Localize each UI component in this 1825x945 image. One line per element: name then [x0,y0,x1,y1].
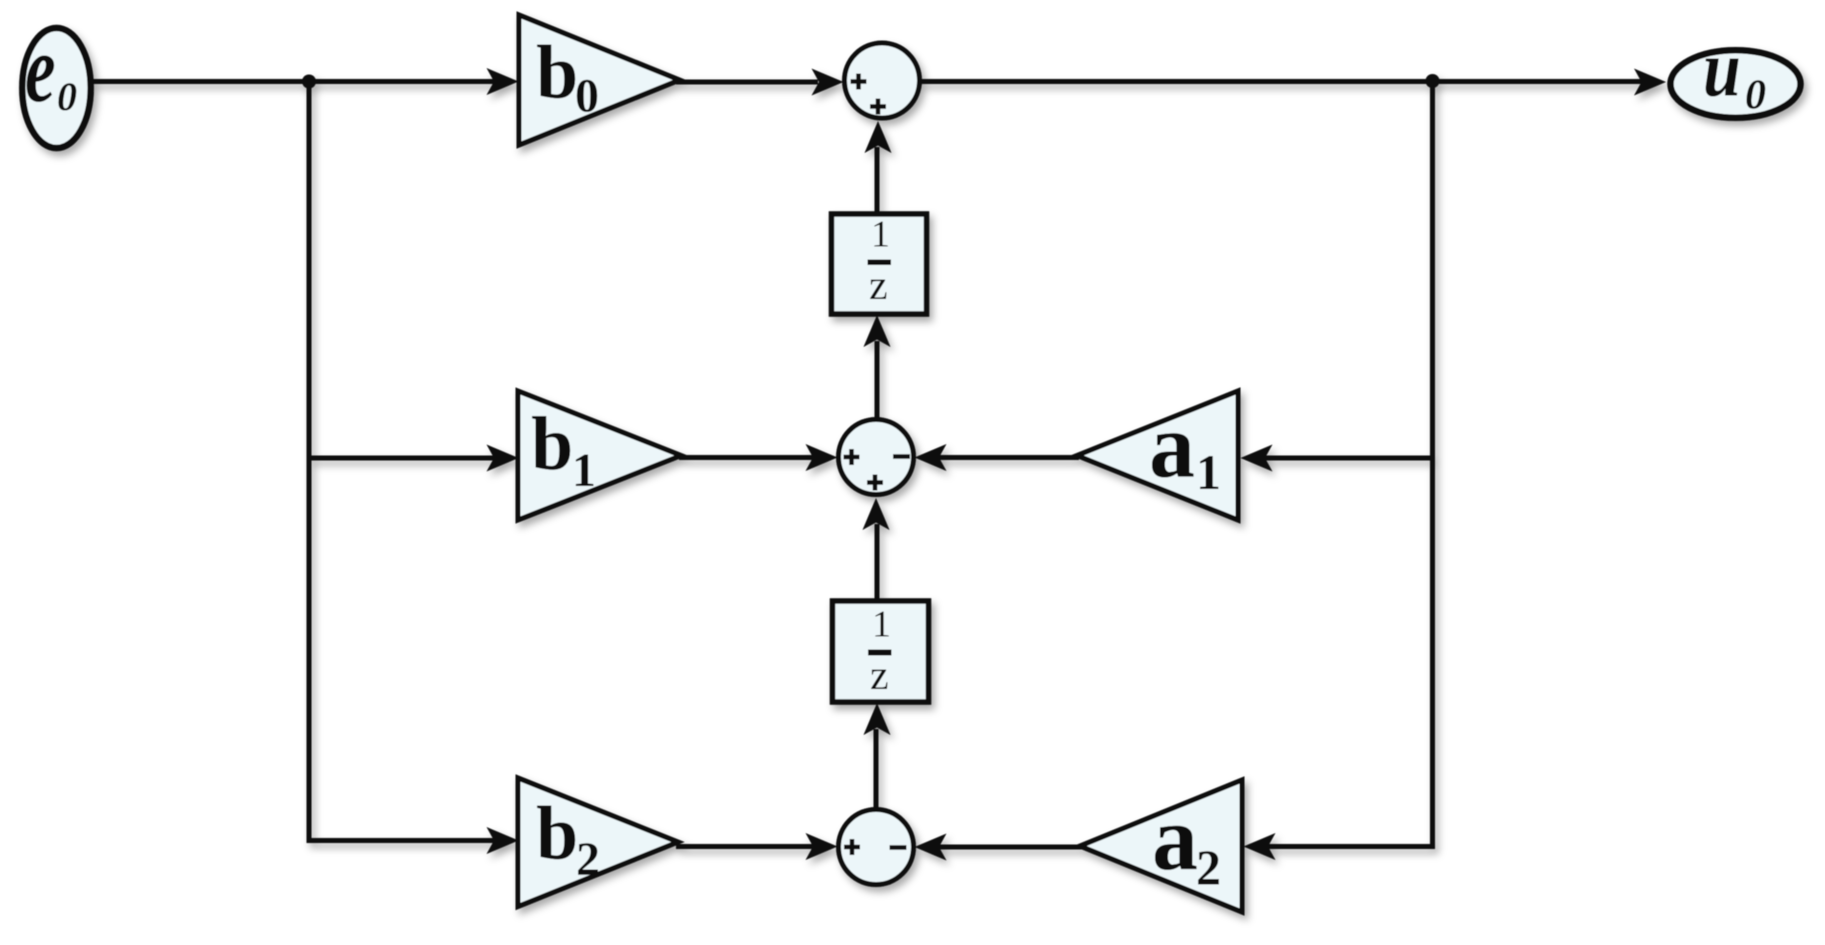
wire: right rail tee to gain a1 [1246,456,1433,461]
svg-text:b: b [536,31,578,115]
arrowhead into gain b0 [487,68,519,95]
output port u0 [1671,25,1801,118]
wire: right feedback rail (down from output junction, corner to a2) [1249,81,1433,847]
sign + (S3 left port) [844,839,860,855]
wire: delay 2 output up to sum S2 [875,524,880,599]
wire: b1 to sum S2 [679,455,813,460]
gain b1 [518,391,681,520]
sign + (S2 bottom port) [867,475,883,491]
svg-text:z: z [870,653,889,699]
wire: a2 to sum S3 [923,845,1082,850]
sign - (S3 right port) [890,845,907,850]
gain b2 [518,778,678,907]
arrowhead into sum S2 right port [915,444,947,471]
svg-text:0: 0 [1745,73,1766,119]
arrowhead into sum S1 bottom port [865,121,892,153]
wire: left branch rail (down from input junction, corner to b2) [309,82,513,841]
svg-text:1: 1 [872,604,891,646]
svg-text:e: e [25,16,56,123]
svg-text:a: a [1152,787,1198,889]
sum junction S3 [839,810,914,885]
svg-text:b: b [531,402,573,486]
arrowhead into gain a2 right side [1244,833,1276,860]
sum junction S1 [845,43,920,118]
node: output branch junction [1426,74,1440,88]
unit delay 1/z (upper) [832,214,927,315]
wire: sum S3 output up to delay 2 [874,729,879,808]
arrowhead into sum S3 left port [806,833,838,860]
svg-text:1: 1 [572,444,596,497]
arrowhead into sum S1 left port [812,69,844,96]
unit delay 1/z (lower) [833,601,929,702]
sum junction S2 [839,420,914,495]
svg-text:0: 0 [57,74,77,119]
wire: a1 to sum S2 [923,455,1079,460]
gain a1 [1077,391,1238,520]
arrowhead into gain b2 [487,827,519,854]
arrowhead into u0 [1634,69,1666,96]
wire: e0 output to gain b0 input (top row) [92,79,496,84]
arrowhead into delay 2 bottom [864,703,891,735]
wire: delay 1 output up to sum S1 [875,147,880,214]
arrowhead into sum S2 bottom port [863,498,890,530]
arrowhead into gain a1 right side [1241,445,1273,472]
svg-text:a: a [1149,395,1195,497]
svg-text:1: 1 [1196,444,1221,500]
svg-text:2: 2 [1196,839,1221,895]
svg-text:2: 2 [576,833,600,886]
sign - (S2 right port) [893,454,910,459]
gain b0 [519,15,680,145]
input port e0 [22,16,90,148]
gain a2 [1080,780,1242,912]
node: input branch junction [302,75,316,89]
svg-text:z: z [869,263,888,309]
wire: b0 to sum S1 [676,80,818,85]
sign + (S1 left port) [851,74,867,90]
arrowhead into sum S3 right port [915,834,947,861]
wire: left rail tee to gain b1 [309,456,513,461]
arrowhead into delay 1 bottom [864,315,891,347]
sign + (S2 left port) [844,449,860,465]
sign + (S1 bottom port) [870,99,886,115]
wire: b2 to sum S3 [676,844,813,849]
arrowhead into gain b1 [487,445,519,472]
wire: sum S1 to u0 (top row right) [921,79,1642,84]
svg-text:1: 1 [871,214,890,256]
svg-text:0: 0 [575,70,599,123]
svg-text:b: b [536,792,578,876]
wire: sum S2 output up to delay 1 [875,341,880,418]
arrowhead into sum S2 left port [806,444,838,471]
svg-text:u: u [1703,25,1741,113]
